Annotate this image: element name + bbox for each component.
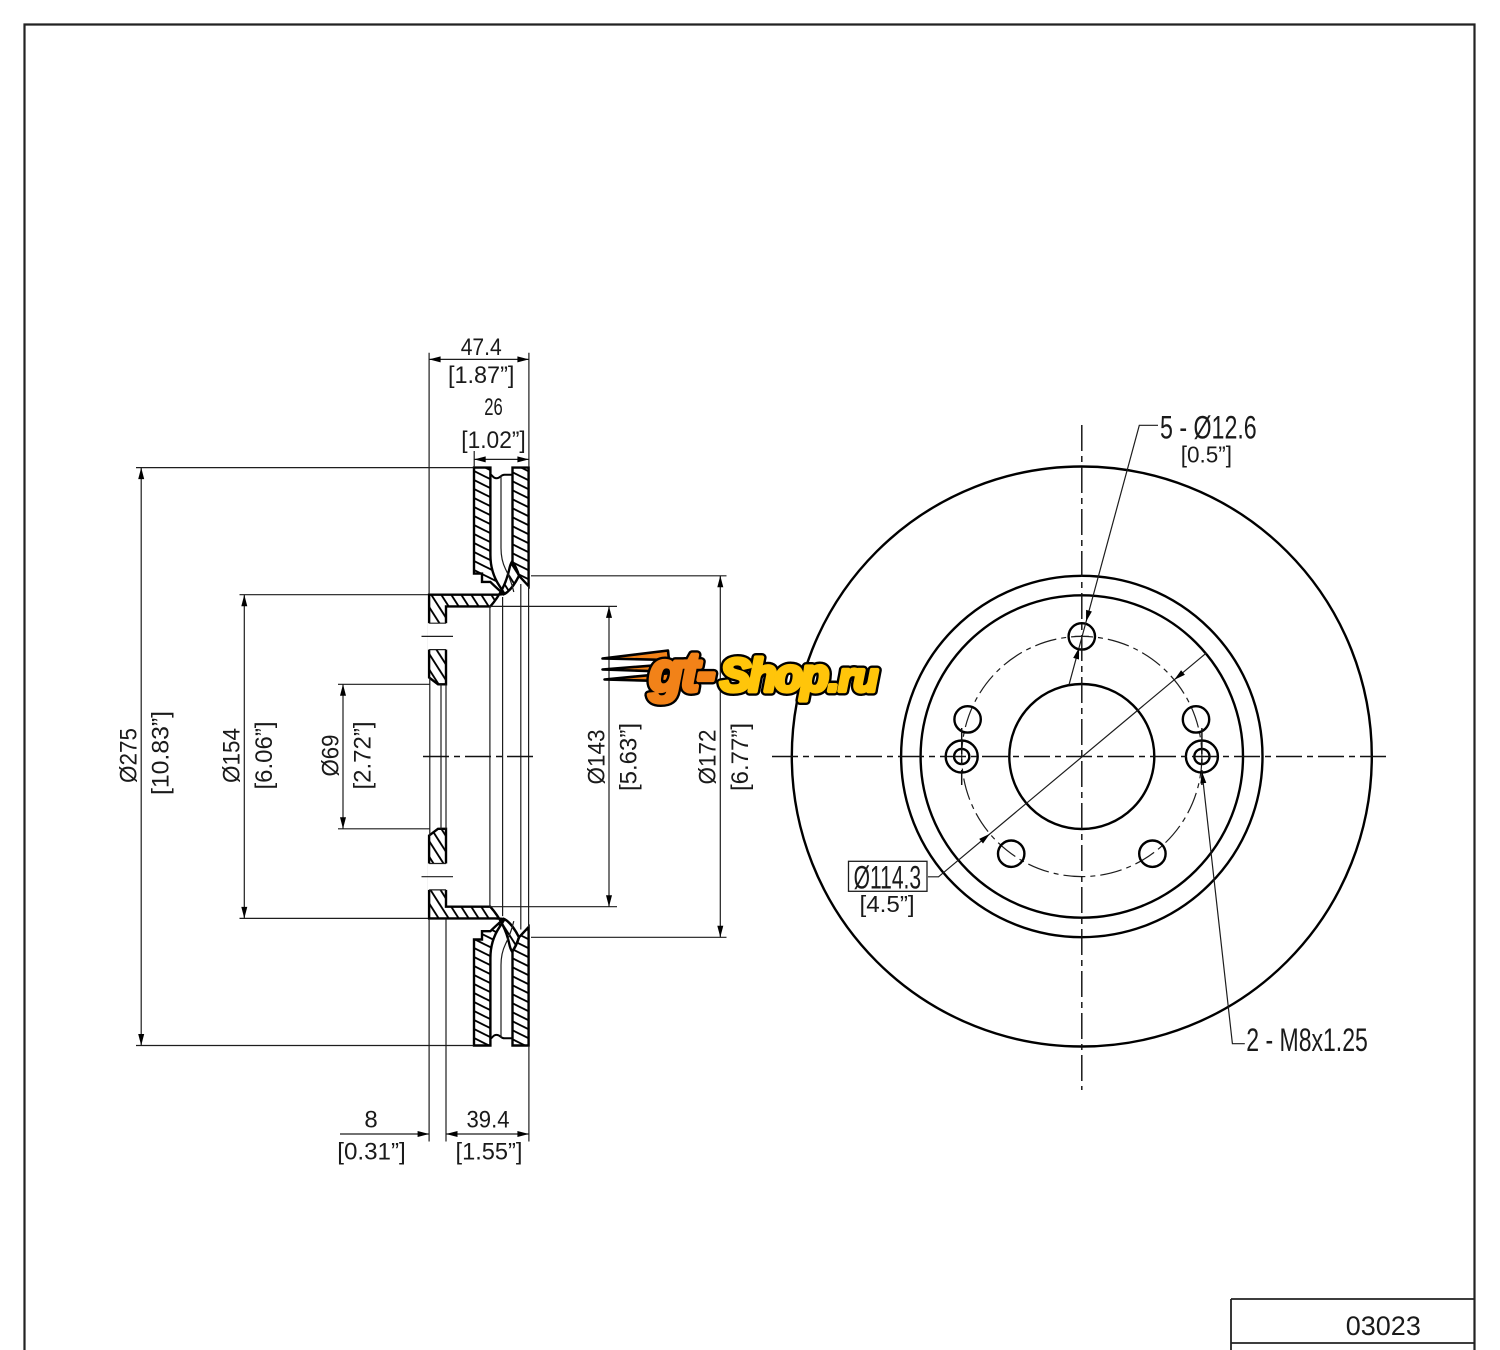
- svg-text:[6.77”]: [6.77”]: [727, 723, 754, 791]
- svg-text:[6.06”]: [6.06”]: [251, 722, 278, 790]
- svg-text:[0.5”]: [0.5”]: [1181, 442, 1232, 468]
- svg-text:Ø154: Ø154: [219, 728, 246, 783]
- svg-text:[1.55”]: [1.55”]: [456, 1139, 523, 1166]
- svg-text:39.4: 39.4: [467, 1107, 510, 1134]
- svg-text:2 - M8x1.25: 2 - M8x1.25: [1246, 1022, 1368, 1058]
- svg-text:Ø275: Ø275: [116, 728, 143, 783]
- svg-text:5 - Ø12.6: 5 - Ø12.6: [1160, 410, 1257, 446]
- svg-text:[4.5”]: [4.5”]: [860, 891, 915, 917]
- svg-text:Ø143: Ø143: [583, 730, 610, 785]
- svg-text:[1.02”]: [1.02”]: [461, 427, 526, 454]
- svg-text:Shop: Shop: [720, 649, 828, 701]
- svg-text:.ru: .ru: [828, 656, 878, 700]
- svg-text:[5.63”]: [5.63”]: [616, 723, 643, 791]
- svg-text:Ø172: Ø172: [695, 730, 722, 785]
- svg-text:8: 8: [364, 1107, 377, 1134]
- svg-text:47.4: 47.4: [461, 334, 502, 361]
- svg-text:gt-: gt-: [648, 640, 715, 703]
- svg-text:03023: 03023: [1346, 1311, 1421, 1341]
- svg-text:Ø69: Ø69: [317, 735, 344, 777]
- svg-text:[1.87”]: [1.87”]: [448, 362, 515, 389]
- svg-text:26: 26: [484, 394, 503, 421]
- svg-text:[2.72”]: [2.72”]: [350, 722, 377, 790]
- svg-text:[0.31”]: [0.31”]: [337, 1139, 406, 1166]
- svg-text:[10.83”]: [10.83”]: [148, 711, 175, 795]
